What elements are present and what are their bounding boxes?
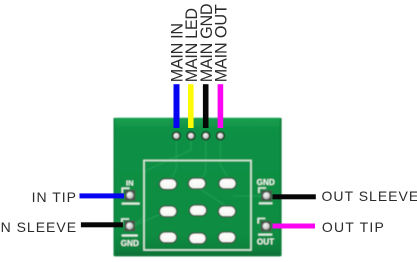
svg-text:MAIN OUT: MAIN OUT: [213, 4, 231, 82]
switch pad row3 col3: [218, 232, 235, 243]
GND pad (right top): [257, 178, 275, 204]
pad P3 MAIN GND: [201, 131, 210, 140]
switch pad row2 col3: [218, 206, 235, 217]
svg-text:IN: IN: [126, 178, 134, 187]
board bottom shadow edge: [114, 252, 282, 257]
trace left GND pad to oval21: [133, 212, 166, 226]
OUT pad (right bottom): [257, 219, 274, 247]
switch pad row2 col2: [189, 205, 206, 216]
switch pad row3 col2: [189, 233, 206, 244]
wire trace MAIN IN to pad: [171, 139, 176, 180]
wire trace MAIN GND: [201, 139, 206, 180]
wire OUT TIP (magenta): [273, 224, 316, 229]
board left edge line: [114, 118, 116, 256]
GND pad (left bottom): [121, 219, 139, 248]
svg-text:IN TIP: IN TIP: [32, 189, 77, 205]
wire MAIN OUT (magenta): [218, 84, 224, 128]
pad P2 MAIN LED: [186, 131, 195, 140]
wire IN SLEEVE (black): [81, 222, 123, 227]
wire trace MAIN OUT: [220, 139, 227, 176]
wire MAIN GND (black): [203, 84, 209, 128]
silkscreen rectangle: [144, 161, 251, 251]
wire MAIN IN (blue): [174, 84, 180, 128]
svg-text:OUT SLEEVE: OUT SLEEVE: [322, 188, 417, 204]
svg-text:IN SLEEVE: IN SLEEVE: [0, 219, 77, 235]
wire MAIN LED (yellow): [188, 84, 194, 128]
svg-text:GND: GND: [257, 178, 275, 187]
wire IN TIP (blue): [80, 193, 125, 198]
pad P1 MAIN IN: [172, 131, 181, 140]
switch pad row1 col1: [159, 179, 176, 190]
switch pad row3 col1: [159, 232, 176, 243]
PCB board: [114, 118, 282, 256]
svg-text:OUT: OUT: [257, 238, 274, 247]
switch pad row1 col3: [219, 178, 236, 189]
trace oval23 to right GND pad: [233, 195, 263, 197]
svg-text:OUT TIP: OUT TIP: [322, 219, 385, 235]
switch pad row2 col1: [159, 206, 176, 217]
3x3 switch contact pads: [159, 178, 236, 244]
IN pad (left top): [122, 178, 140, 204]
trace oval12 to oval23: [200, 189, 226, 206]
switch pad row1 col2: [188, 178, 205, 189]
pad P4 MAIN OUT: [216, 131, 225, 140]
wire OUT SLEEVE (black): [273, 194, 316, 199]
board right edge line: [280, 118, 282, 256]
wire trace MAIN LED: [135, 139, 191, 224]
svg-text:GND: GND: [121, 239, 139, 248]
